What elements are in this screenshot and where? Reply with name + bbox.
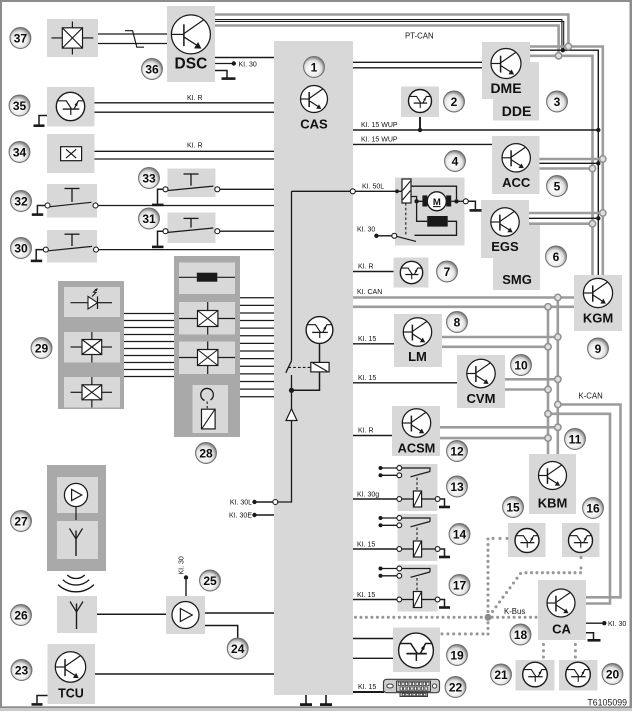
PT-CAN bus gray line upper (DSC to right) xyxy=(215,15,568,45)
svg-text:13: 13 xyxy=(450,480,464,494)
switch 33 ground xyxy=(158,189,164,204)
svg-text:27: 27 xyxy=(14,514,28,528)
K-CAN trunk vertical right xyxy=(547,307,550,454)
receiver box 2 xyxy=(401,87,439,118)
svg-text:17: 17 xyxy=(453,578,467,592)
module box KBM xyxy=(529,454,576,514)
CVM bus wires to K-CAN trunk xyxy=(505,378,558,381)
callout number 23 xyxy=(11,660,32,681)
relay 17 stub wires xyxy=(381,568,398,570)
svg-text:12: 12 xyxy=(450,444,464,458)
CA dotted to box 21 xyxy=(542,643,545,659)
callout number 18 xyxy=(510,624,531,645)
svg-text:20: 20 xyxy=(606,667,620,681)
svg-text:31: 31 xyxy=(142,212,156,226)
callout number 22 xyxy=(445,677,466,698)
DME bus wire gray lower to vertical xyxy=(530,56,593,275)
svg-text:KI. 30: KI. 30 xyxy=(179,556,186,574)
module box DDE xyxy=(493,62,539,121)
svg-text:32: 32 xyxy=(14,194,28,208)
svg-text:33: 33 xyxy=(142,171,156,185)
svg-text:DME: DME xyxy=(490,80,521,96)
svg-text:KBM: KBM xyxy=(538,496,568,511)
callout number 24 xyxy=(227,638,248,659)
svg-text:KI. R: KI. R xyxy=(187,143,203,150)
callout number 32 xyxy=(11,191,32,212)
LM bus wires to K-CAN trunk xyxy=(442,336,558,339)
switch 30 blade xyxy=(48,246,92,250)
switch 30 ground xyxy=(36,250,43,260)
OBD diagnostic connector 22 xyxy=(384,679,440,696)
wire pair box37 to DSC xyxy=(98,33,167,35)
remote key 27 outer xyxy=(47,465,106,571)
amplifier icon 25 xyxy=(172,602,199,629)
actuator cluster 28 cell 2 xyxy=(179,302,235,335)
bird icon box 2 xyxy=(409,90,432,113)
PT-CAN bus gray line lower (DSC to right) xyxy=(215,26,559,54)
svg-text:KI. R: KI. R xyxy=(358,428,374,435)
transistor icon LM xyxy=(403,318,431,346)
bird icon box 7 xyxy=(400,261,422,283)
amplifier box 25 xyxy=(166,596,205,634)
motor resistor loop xyxy=(417,203,428,221)
switch box 31 xyxy=(168,213,216,244)
antenna box 26 xyxy=(57,596,97,633)
KI.R wire to ACSM xyxy=(353,435,392,437)
motor resistor xyxy=(427,216,448,227)
svg-text:29: 29 xyxy=(35,341,49,355)
motor top loop wire xyxy=(411,186,457,199)
CAS ground left xyxy=(305,695,307,704)
callout number 5 xyxy=(547,176,568,197)
svg-text:KI. R: KI. R xyxy=(358,264,374,271)
motor mid wire xyxy=(411,197,422,202)
KI.15 wire to CVM xyxy=(353,382,457,384)
KI.15 wire to OBD connector xyxy=(353,691,384,693)
switch box 32 xyxy=(47,184,97,218)
svg-text:KI. 15: KI. 15 xyxy=(357,541,375,548)
relay 14 ground xyxy=(440,549,445,556)
callout number 34 xyxy=(9,142,30,163)
svg-text:35: 35 xyxy=(13,99,27,113)
CAS ground right xyxy=(325,695,327,704)
svg-text:37: 37 xyxy=(14,31,28,45)
relay box 14 xyxy=(398,514,438,561)
CAS terminal circle KI.50L xyxy=(350,189,355,194)
svg-text:25: 25 xyxy=(203,574,217,588)
relay 14 coil xyxy=(413,541,421,557)
KI.15 wire to LM xyxy=(353,343,394,345)
receiver box 7 xyxy=(394,258,429,288)
svg-text:KI. 15: KI. 15 xyxy=(358,375,376,382)
module box ACSM xyxy=(392,406,440,456)
module box DME xyxy=(482,42,530,99)
callout number 37 xyxy=(10,28,31,49)
wire pair CAS to DME xyxy=(353,61,482,63)
KI.50L wire to motor assembly xyxy=(355,190,402,192)
motor dashed actuator link xyxy=(405,203,407,236)
switch 30 actuator xyxy=(65,233,80,235)
DME bus wire gray upper to PT-CAN vertical xyxy=(530,47,603,276)
K-Bus dotted vertical below box 16 xyxy=(579,556,582,570)
relay 14 dashed link xyxy=(416,528,418,542)
svg-text:2: 2 xyxy=(451,95,458,109)
wire antenna 26 to amplifier 25 xyxy=(97,613,166,615)
svg-text:26: 26 xyxy=(14,608,28,622)
relay box 17 xyxy=(398,565,438,612)
actuator cluster 28 cell 3 xyxy=(179,342,235,375)
relay 13 dashed link xyxy=(416,478,418,492)
module box EGS xyxy=(481,200,529,258)
module box CVM xyxy=(457,355,505,408)
transistor icon KBM xyxy=(539,462,567,490)
transistor icon DSC xyxy=(171,15,210,54)
callout number 31 xyxy=(139,208,160,229)
transistor icon ACC xyxy=(502,144,530,172)
icon 28 cell2 load xyxy=(179,302,235,335)
callout number 30 xyxy=(11,238,32,259)
svg-text:8: 8 xyxy=(454,315,461,329)
callout number 28 xyxy=(196,443,217,464)
switch 31 ground xyxy=(158,231,164,246)
callout number 15 xyxy=(503,497,524,518)
svg-text:4: 4 xyxy=(452,154,459,168)
bird icon box 20 xyxy=(566,662,591,687)
svg-text:30: 30 xyxy=(14,241,28,255)
relay 13 ground xyxy=(440,499,445,506)
CA dotted to box 20 xyxy=(574,643,577,659)
CAS internal relay output xyxy=(293,372,320,390)
svg-text:19: 19 xyxy=(450,648,464,662)
motor M xyxy=(422,195,427,206)
K-CAN trunk vertical left xyxy=(556,298,559,455)
svg-text:DSC: DSC xyxy=(175,56,208,73)
harness 29 to 28 (10 wires) xyxy=(124,313,174,315)
switch 33 actuator xyxy=(184,173,199,175)
svg-text:22: 22 xyxy=(449,680,463,694)
DME bus wire black to vertical xyxy=(530,50,598,275)
relay 14 stub wires xyxy=(381,517,398,519)
svg-text:CAS: CAS xyxy=(300,117,328,132)
callout number 33 xyxy=(139,168,160,189)
callout number 29 xyxy=(31,338,52,359)
module box 16 xyxy=(562,523,600,557)
switch 32 actuator xyxy=(65,188,80,190)
module box KGM xyxy=(574,275,622,331)
callout number 7 xyxy=(437,261,458,282)
svg-text:KGM: KGM xyxy=(583,311,613,326)
callout number 1 xyxy=(304,57,325,78)
callout number 26 xyxy=(11,605,32,626)
bird icon box 19 xyxy=(399,633,434,668)
actuator cluster 28 cell 4 (lock) xyxy=(193,385,229,433)
ACSM bus wires to K-CAN trunk xyxy=(440,426,558,429)
svg-text:7: 7 xyxy=(444,265,451,279)
svg-text:KI. 30: KI. 30 xyxy=(239,61,257,68)
callout number 14 xyxy=(449,524,470,545)
hall sensor striped box xyxy=(402,179,411,203)
KI.30 input to motor assembly xyxy=(374,234,378,238)
svg-text:14: 14 xyxy=(453,527,467,541)
svg-text:LM: LM xyxy=(408,349,427,364)
callout number 4 xyxy=(445,151,466,172)
antenna icon 27 xyxy=(70,529,83,557)
svg-text:KI. 15: KI. 15 xyxy=(358,336,376,343)
transistor icon ACSM xyxy=(402,409,430,437)
svg-text:ACSM: ACSM xyxy=(398,441,436,456)
relay 17 dashed link xyxy=(416,578,418,592)
svg-text:KI. 30: KI. 30 xyxy=(608,621,626,628)
harness 28 to CAS (14 wires) xyxy=(240,297,274,299)
K-Bus dotted vertical xyxy=(486,537,489,635)
icon 28 cell1 resistor xyxy=(179,273,235,282)
switch box 33 xyxy=(168,169,216,198)
module box LM xyxy=(394,314,442,367)
switch 33 wire to CAS xyxy=(220,188,275,190)
icon box35 transistor xyxy=(56,92,84,120)
remote key 27 amplifier cell xyxy=(57,477,98,513)
component box 36/35 (sensor) xyxy=(47,87,95,127)
CAS internal relay coil xyxy=(319,343,321,362)
KI.30E input xyxy=(252,513,256,517)
CAS internal relay dashed link xyxy=(288,366,310,368)
remote key 27 antenna cell xyxy=(57,521,98,559)
svg-text:KI. CAN: KI. CAN xyxy=(357,289,382,296)
module box TCU xyxy=(48,644,96,704)
svg-text:DDE: DDE xyxy=(502,103,532,119)
svg-text:ACC: ACC xyxy=(502,175,531,190)
svg-text:KI. R: KI. R xyxy=(187,95,203,102)
KI.30L input xyxy=(252,500,256,504)
svg-text:5: 5 xyxy=(554,179,561,193)
transistor icon DME xyxy=(491,49,521,79)
svg-text:24: 24 xyxy=(231,642,245,656)
KI.15WUP line 1 xyxy=(353,129,598,131)
CAS internal diode triangle xyxy=(286,409,297,421)
module box CA xyxy=(538,580,586,640)
callout number 12 xyxy=(447,441,468,462)
callout number 25 xyxy=(200,570,221,591)
callout number 36 xyxy=(142,59,163,80)
switch 31 terminals xyxy=(163,229,168,234)
svg-text:CA: CA xyxy=(552,622,571,637)
relay 17 ground xyxy=(440,600,445,607)
bird icon box 15 xyxy=(515,529,539,553)
button cluster 29 outer xyxy=(58,281,124,409)
CA ground xyxy=(586,633,594,640)
KI.30 feed to amplifier 25 xyxy=(184,575,188,579)
svg-text:34: 34 xyxy=(13,145,27,159)
svg-text:6: 6 xyxy=(553,250,560,264)
K-Bus dotted from box 19 xyxy=(440,632,484,635)
module box ACC xyxy=(492,136,540,194)
bird icon box 16 xyxy=(569,529,593,553)
module box 15 xyxy=(508,523,546,557)
svg-text:EGS: EGS xyxy=(491,239,519,254)
wire TCU to CAS xyxy=(95,673,274,675)
bus junction circles xyxy=(565,43,571,49)
transistor icon EGS xyxy=(491,208,519,236)
ground at DSC xyxy=(215,71,227,78)
callout number 9 xyxy=(588,338,609,359)
switch 32 ground xyxy=(37,206,45,214)
callout number 13 xyxy=(447,476,468,497)
actuator cluster 28 outer xyxy=(174,256,240,437)
svg-text:KI. 30L: KI. 30L xyxy=(230,500,252,507)
svg-text:18: 18 xyxy=(514,628,528,642)
svg-text:9: 9 xyxy=(595,342,602,356)
transistor icon KGM xyxy=(583,278,612,307)
callout number 3 xyxy=(547,91,568,112)
radio wave arcs xyxy=(58,575,94,592)
actuator cluster 28 cell 1 xyxy=(179,263,235,295)
svg-text:16: 16 xyxy=(586,501,600,515)
icon 28 cell4 lock xyxy=(201,388,215,428)
relay 13 coil xyxy=(413,491,421,507)
antenna icon 26 xyxy=(70,602,83,630)
switch 32 blade xyxy=(50,202,92,206)
relay 17 contact xyxy=(402,569,430,573)
relay 17 coil xyxy=(413,592,421,608)
callout number 19 xyxy=(447,645,468,666)
K-CAN branch upper to CA xyxy=(558,405,621,598)
module box 21 xyxy=(516,660,555,691)
callout number 35 xyxy=(9,95,30,116)
wire pair box34 to CAS xyxy=(95,150,275,152)
svg-text:28: 28 xyxy=(199,446,213,460)
button cluster 29 cell 1 xyxy=(64,287,120,317)
icon 29 cell3 load xyxy=(71,377,113,408)
svg-text:T6105099: T6105099 xyxy=(587,697,627,707)
callout number 10 xyxy=(511,355,532,376)
callout number 17 xyxy=(449,575,470,596)
icon 28 cell3 load xyxy=(179,342,235,375)
svg-text:SMG: SMG xyxy=(502,272,532,287)
motor right wire to ground xyxy=(451,200,463,202)
module box 19 xyxy=(393,628,440,673)
svg-text:TCU: TCU xyxy=(58,687,84,701)
icon box37 load xyxy=(52,22,94,55)
relay box 13 xyxy=(398,464,438,511)
wire amplifier 25 to CAS xyxy=(205,612,274,614)
transistor icon TCU xyxy=(55,652,85,682)
svg-text:36: 36 xyxy=(145,62,159,76)
CAS internal supply wire xyxy=(278,375,292,502)
switch 31 wire to CAS xyxy=(220,230,275,232)
module box SMG xyxy=(493,224,540,290)
switch 31 blade xyxy=(168,228,213,232)
CAS internal transistor xyxy=(306,317,333,344)
K-Bus dotted stub to box 15 xyxy=(491,537,508,540)
CAS internal switch blade xyxy=(286,361,292,373)
svg-text:KI. 50L: KI. 50L xyxy=(362,183,384,190)
svg-text:15: 15 xyxy=(506,500,520,514)
KI.30 stub at DSC xyxy=(215,63,233,65)
svg-text:23: 23 xyxy=(15,663,29,677)
svg-text:KI. 30: KI. 30 xyxy=(357,226,375,233)
switch 32 terminals xyxy=(45,203,50,208)
callout number 16 xyxy=(583,498,604,519)
wire black pair DSC to bus corner xyxy=(215,20,562,51)
link in 27 xyxy=(75,507,77,520)
switch 30 wire to CAS xyxy=(98,249,274,251)
component box 34 (load) xyxy=(47,134,95,173)
icon 29 cell2 load xyxy=(71,332,113,363)
relay 14 supply wire xyxy=(353,548,397,550)
KI.CAN bus pair from CAS to KGM xyxy=(353,296,574,299)
module box DSC xyxy=(167,6,215,82)
motor assembly box 4 xyxy=(395,178,465,246)
svg-text:11: 11 xyxy=(569,432,582,446)
switch 32 wire to CAS xyxy=(98,205,274,207)
svg-text:21: 21 xyxy=(494,668,508,682)
callout number 21 xyxy=(491,664,512,685)
wire amplifier 25 to node 24 xyxy=(205,626,238,638)
transistor icon CA xyxy=(547,589,575,617)
callout number 8 xyxy=(447,312,468,333)
svg-text:KI. 30g: KI. 30g xyxy=(357,491,379,498)
TCU ground xyxy=(37,696,48,704)
wire DSC to CAS xyxy=(215,57,274,59)
bird icon box 21 xyxy=(523,662,548,687)
amplifier icon 27 xyxy=(64,483,87,506)
svg-text:KI. 15: KI. 15 xyxy=(358,684,376,691)
button cluster 29 cell 3 xyxy=(64,377,120,408)
CA KI.30 stub xyxy=(586,622,603,624)
KI.R wire to box 7 xyxy=(353,271,394,273)
relay 13 stub wires xyxy=(381,467,398,469)
svg-text:KI. 15: KI. 15 xyxy=(357,592,375,599)
relay 14 contact xyxy=(402,518,430,522)
ACC bus wires to PT-CAN trunk xyxy=(540,158,603,161)
switch 33 terminals xyxy=(163,187,168,192)
EGS bus wires to PT-CAN trunk xyxy=(529,212,603,215)
K-Bus junction node xyxy=(485,614,492,621)
wire pair CAS to box 19 xyxy=(353,638,393,640)
CAS terminal circle KI.30L xyxy=(273,500,278,505)
K-CAN branch lower to CA xyxy=(548,414,610,604)
callout number 2 xyxy=(444,91,465,112)
module box 20 xyxy=(559,660,598,691)
svg-text:KI. 30E: KI. 30E xyxy=(229,513,252,520)
icon box34 load xyxy=(61,147,82,161)
svg-text:PT-CAN: PT-CAN xyxy=(405,32,434,41)
wire pair box35 to CAS (KI.R) xyxy=(95,102,275,104)
ground at box35 xyxy=(34,116,48,126)
callout number 27 xyxy=(11,511,32,532)
switch box 30 xyxy=(47,230,97,263)
transistor icon CVM xyxy=(467,359,495,387)
svg-text:K-CAN: K-CAN xyxy=(579,392,603,401)
svg-text:1: 1 xyxy=(311,60,318,74)
svg-text:3: 3 xyxy=(554,95,561,109)
switch 33 blade xyxy=(168,186,213,190)
box 2 drop wire xyxy=(419,117,421,130)
KI.15WUP line 2 xyxy=(353,143,492,145)
svg-text:KI. 15 WUP: KI. 15 WUP xyxy=(361,122,398,129)
callout number 6 xyxy=(546,246,567,267)
relay 17 supply wire xyxy=(353,599,397,601)
svg-text:CVM: CVM xyxy=(467,391,496,406)
K-Bus dotted diagonal to box 16 path xyxy=(491,572,522,613)
relay 13 contact xyxy=(402,468,430,472)
K-Bus dotted horizontal under box 16 xyxy=(524,571,582,574)
svg-text:KI. 15 WUP: KI. 15 WUP xyxy=(361,136,398,143)
switch 30 terminals xyxy=(43,247,48,252)
callout number 20 xyxy=(602,664,623,685)
transistor icon CAS xyxy=(301,86,328,113)
switch 31 actuator xyxy=(184,217,199,219)
